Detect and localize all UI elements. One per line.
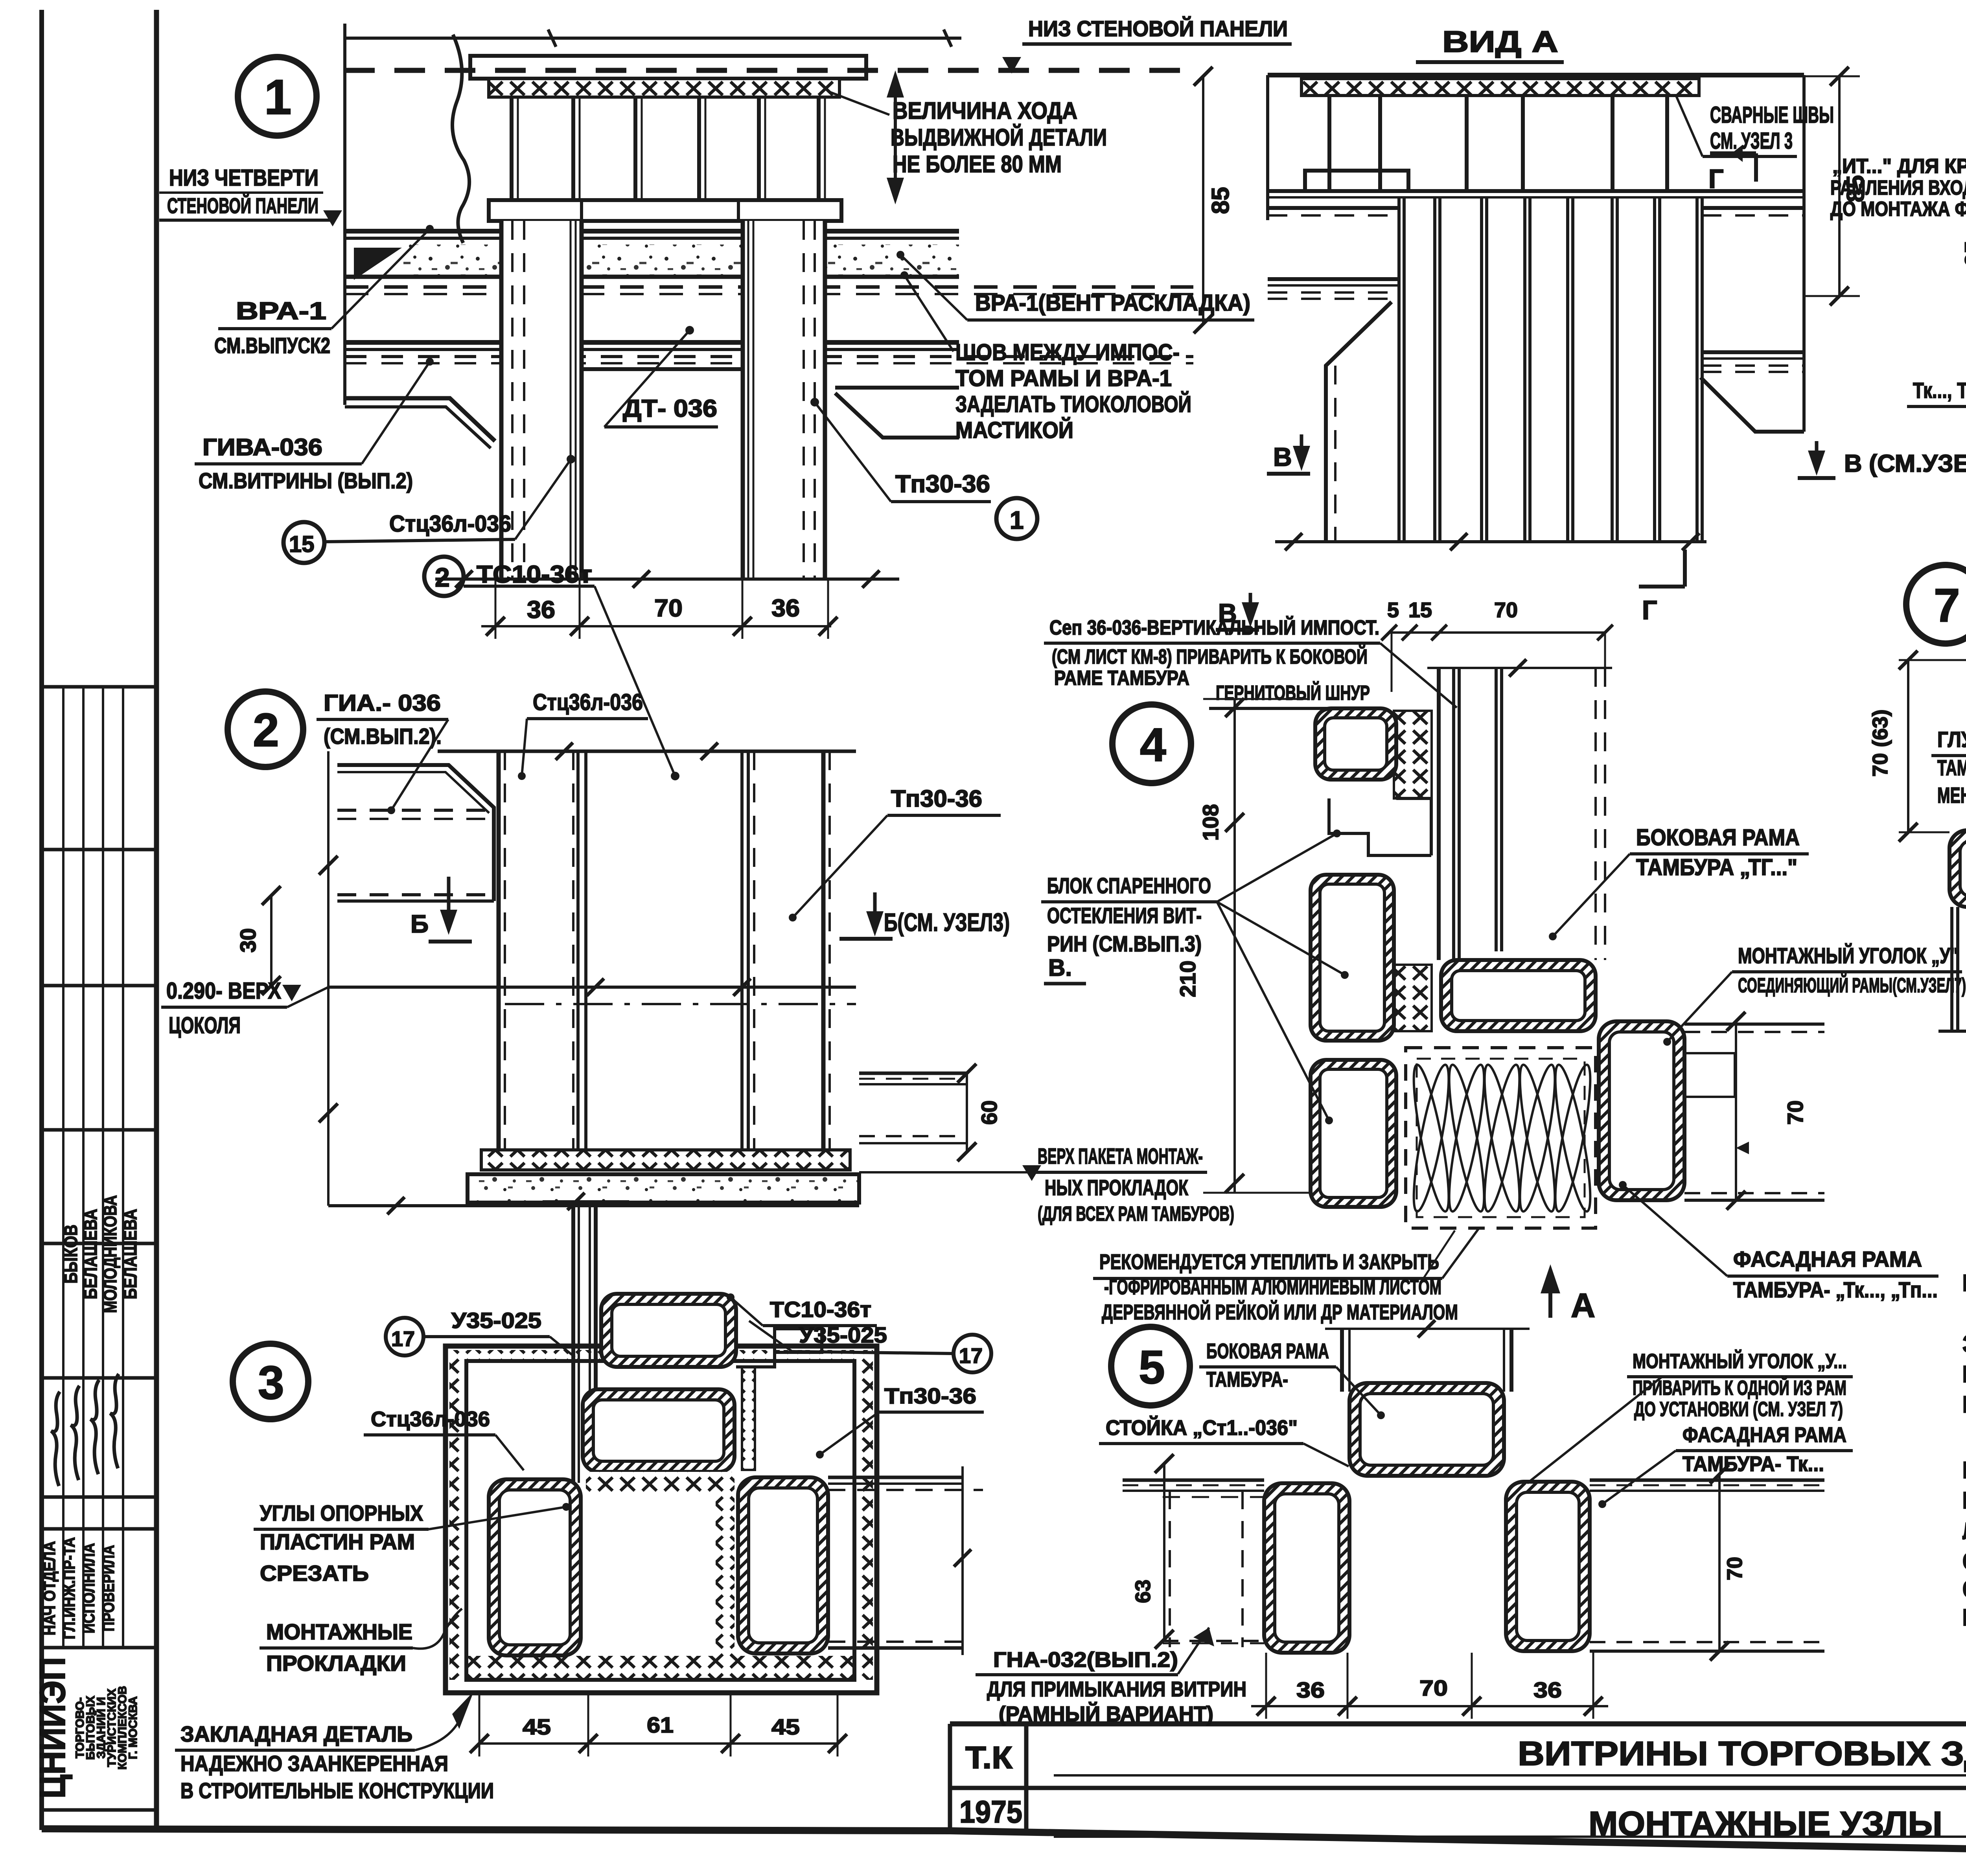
- vertical channel (боковая рама): [1437, 668, 1441, 960]
- base plate speckled: [468, 1174, 859, 1203]
- node circle 5: [1111, 1327, 1190, 1405]
- svg-text:В: В: [1273, 442, 1292, 471]
- Г section marker top: [1710, 151, 1756, 155]
- svg-text:Б: Б: [411, 910, 429, 938]
- svg-text:Стц36л-036: Стц36л-036: [533, 690, 643, 715]
- svg-text:(СМ.ВЫП.2).: (СМ.ВЫП.2).: [324, 724, 442, 749]
- right gasket strip: [742, 1367, 755, 1470]
- svg-text:НЕНИЕ СТОЕК НА УГЛАХ ПРОИЗВОДИ: НЕНИЕ СТОЕК НА УГЛАХ ПРОИЗВОДИТСЯ ПО ТИП…: [1962, 1361, 1966, 1387]
- svg-text:СОЕДИНЯЮЩИЙ РАМЫ(СМ.УЗЕЛ7): СОЕДИНЯЮЩИЙ РАМЫ(СМ.УЗЕЛ7): [1738, 974, 1966, 997]
- svg-text:ВИД А: ВИД А: [1442, 25, 1558, 59]
- top edge line: [1268, 73, 1804, 77]
- left column: [501, 221, 582, 579]
- svg-text:ТАМБУРА-: ТАМБУРА-: [1206, 1368, 1288, 1391]
- svg-text:70: 70: [1494, 598, 1518, 622]
- svg-text:36: 36: [1296, 1677, 1325, 1702]
- svg-text:ЗАПОЛНЕНИЕ ШВОВ МЕЖДУ СТОЙКАМИ: ЗАПОЛНЕНИЕ ШВОВ МЕЖДУ СТОЙКАМИ РАМ, НАРА…: [1962, 1331, 1966, 1357]
- svg-text:Г. МОСКВА: Г. МОСКВА: [127, 1696, 140, 1759]
- dashed hidden lines: [345, 285, 1193, 289]
- left beam section: [1268, 206, 1399, 210]
- svg-text:У35-025: У35-025: [799, 1322, 887, 1347]
- svg-text:Тк..., Тп...: Тк..., Тп...: [1913, 378, 1966, 403]
- right beam section: [1702, 206, 1804, 210]
- svg-text:В (СМ.УЗЕЛ4): В (СМ.УЗЕЛ4): [1844, 450, 1966, 477]
- svg-text:ГЕРМЕТИЗИРУЮТСЯ, ВЕРХ ПЕРЕКРЫВ: ГЕРМЕТИЗИРУЮТСЯ, ВЕРХ ПЕРЕКРЫВАЕТСЯ КОНС…: [1962, 1604, 1966, 1631]
- svg-text:15: 15: [1408, 598, 1432, 622]
- svg-text:БОКОВАЯ РАМА: БОКОВАЯ РАМА: [1636, 825, 1800, 850]
- svg-text:108: 108: [1198, 804, 1223, 841]
- bottom tick line: [328, 1204, 859, 1207]
- sheet frame: left margin strip outer line: [39, 10, 44, 1830]
- left strip: signatures (squiggles): [51, 1392, 60, 1486]
- small sill plate left: [1305, 171, 1408, 191]
- bubble 17 left + У35-025: [386, 1318, 423, 1356]
- svg-text:(ДЛЯ ВСЕХ РАМ ТАМБУРОВ): (ДЛЯ ВСЕХ РАМ ТАМБУРОВ): [1038, 1203, 1234, 1225]
- top dashed panel line: [344, 68, 1193, 73]
- dim 63: [1163, 1464, 1165, 1639]
- title block: middle line: [950, 1786, 1966, 1790]
- left margin strip column lines: [62, 687, 64, 1648]
- svg-text:НЯЕТСЯ ПРОЕКТОМ КОНКРЕТНОГО ОБ: НЯЕТСЯ ПРОЕКТОМ КОНКРЕТНОГО ОБЪЕКТА.: [1962, 1270, 1966, 1296]
- right beam stubs: [859, 1072, 967, 1075]
- svg-text:25: 25: [1960, 241, 1966, 267]
- left chamfer step: [345, 398, 495, 441]
- svg-text:ТАМБУРА- Тк...: ТАМБУРА- Тк...: [1683, 1452, 1824, 1476]
- dim 85 right: [1202, 76, 1204, 324]
- svg-text:НАЧ ОТДЕЛА: НАЧ ОТДЕЛА: [40, 1541, 59, 1635]
- svg-text:СВАРНЫЕ ШВЫ: СВАРНЫЕ ШВЫ: [1710, 102, 1834, 128]
- svg-text:МОНТАЖНЫЕ: МОНТАЖНЫЕ: [266, 1619, 412, 1644]
- svg-text:36: 36: [1533, 1677, 1562, 1702]
- node circle 2: [228, 692, 303, 767]
- wavy break line: [452, 35, 469, 243]
- svg-text:В СТРОИТЕЛЬНЫЕ КОНСТРУКЦИИ: В СТРОИТЕЛЬНЫЕ КОНСТРУКЦИИ: [180, 1778, 494, 1803]
- hatch under middle tube: [586, 1472, 734, 1492]
- svg-text:ПРОКЛАДКИ: ПРОКЛАДКИ: [266, 1651, 406, 1676]
- step profiles right of upper tube: [736, 1329, 822, 1367]
- svg-text:ГЛ.ИНЖ.ПР-ТА: ГЛ.ИНЖ.ПР-ТА: [60, 1537, 78, 1639]
- svg-text:Тп30-36: Тп30-36: [895, 471, 990, 498]
- left tube vertical: [489, 1479, 581, 1655]
- svg-text:ВИТРИНЫ ТОРГОВЫХ ЗДАНИЙ.: ВИТРИНЫ ТОРГОВЫХ ЗДАНИЙ.: [1518, 1734, 1966, 1773]
- svg-text:30: 30: [236, 928, 260, 953]
- svg-text:А: А: [1571, 1287, 1595, 1324]
- 30 dim: [270, 896, 272, 986]
- svg-text:РИН СЕРИИ 1.236-3 ВЫПУСКИ 1, 2: РИН СЕРИИ 1.236-3 ВЫПУСКИ 1, 2, 3.: [1962, 1391, 1966, 1418]
- right rails: [1684, 1023, 1824, 1026]
- svg-text:УГЛЫ ОПОРНЫХ: УГЛЫ ОПОРНЫХ: [260, 1501, 423, 1525]
- node circle 4: [1112, 704, 1191, 783]
- dimension line 36|70|36: [481, 625, 831, 627]
- top channel: [1340, 1329, 1344, 1392]
- svg-text:ДЛЯ ПРИМЫКАНИЯ ВИТРИН: ДЛЯ ПРИМЫКАНИЯ ВИТРИН: [987, 1677, 1246, 1701]
- svg-text:БЛОК СПАРЕННОГО: БЛОК СПАРЕННОГО: [1047, 873, 1211, 898]
- svg-text:Тп30-36: Тп30-36: [891, 785, 982, 812]
- svg-text:ВРА-1: ВРА-1: [236, 298, 326, 325]
- ref bubble 15 + label Стц36л-036: [283, 522, 324, 563]
- svg-text:ГИА.- 036: ГИА.- 036: [324, 690, 441, 716]
- svg-text:„ИТ..." ДЛЯ КРЕПЛЕНИЯ ОБ-: „ИТ..." ДЛЯ КРЕПЛЕНИЯ ОБ-: [1832, 155, 1966, 178]
- node circle 3: [233, 1344, 308, 1419]
- insulation loops: [1407, 1063, 1456, 1214]
- svg-text:ОЧЕРЕДЬ УСТАНАВЛИВАЮТСЯ СТОЙКИ: ОЧЕРЕДЬ УСТАНАВЛИВАЮТСЯ СТОЙКИ „Стц..." …: [1962, 1548, 1966, 1574]
- node circle 1: [238, 57, 317, 136]
- svg-text:Тп30-36: Тп30-36: [884, 1383, 976, 1408]
- svg-text:ПРИВАРИТЬ К ОДНОЙ ИЗ РАМ: ПРИВАРИТЬ К ОДНОЙ ИЗ РАМ: [1633, 1376, 1846, 1400]
- svg-text:СИРУЮЩИЙ ПОГРЕШНОСТЬ УСТАНОВКИ: СИРУЮЩИЙ ПОГРЕШНОСТЬ УСТАНОВКИ РАМ ВИТРИ…: [1962, 1576, 1966, 1602]
- lintel between columns: [582, 367, 743, 371]
- svg-text:ГЛУХАЯ РАМА: ГЛУХАЯ РАМА: [1937, 727, 1966, 752]
- svg-text:60: 60: [977, 1100, 1001, 1125]
- title block: top line: [950, 1722, 1966, 1727]
- svg-text:Т.К: Т.К: [965, 1740, 1012, 1775]
- svg-text:НЕ БОЛЕЕ 80 ММ: НЕ БОЛЕЕ 80 ММ: [893, 151, 1062, 177]
- right tube vertical: [738, 1477, 828, 1653]
- mullions: [1327, 96, 1331, 191]
- svg-text:ТАМБУРА „ТГ...": ТАМБУРА „ТГ...": [1636, 855, 1797, 880]
- left attached block with chamfer: [337, 765, 494, 901]
- svg-text:Стц36л-036: Стц36л-036: [389, 511, 511, 537]
- gasket x-hatch strips: [1394, 711, 1432, 798]
- svg-text:МОНТАЖНЫЙ УГОЛОК „У...: МОНТАЖНЫЙ УГОЛОК „У...: [1633, 1350, 1847, 1373]
- left margin strip row lines: [42, 685, 156, 689]
- stroke travel arrow: [894, 79, 897, 197]
- svg-text:45: 45: [771, 1714, 800, 1739]
- svg-text:НИЗ ЧЕТВЕРТИ: НИЗ ЧЕТВЕРТИ: [169, 165, 318, 191]
- sill bar: [489, 200, 841, 221]
- svg-text:2: 2: [253, 704, 279, 756]
- svg-text:СТЕНОВОЙ ПАНЕЛИ: СТЕНОВОЙ ПАНЕЛИ: [167, 193, 318, 218]
- svg-text:МЕНТОВ ВИТРИН: МЕНТОВ ВИТРИН: [1937, 783, 1966, 807]
- sealant wedge: [354, 248, 402, 280]
- embedded plate outer rect: [445, 1346, 877, 1693]
- Г section marker bottom: [1683, 550, 1687, 587]
- svg-text:ИСПОЛНИЛА: ИСПОЛНИЛА: [79, 1543, 98, 1633]
- leader from ТС10-36т to detail 2 column: [595, 586, 675, 776]
- svg-text:17: 17: [959, 1344, 983, 1368]
- svg-text:36: 36: [527, 596, 555, 623]
- svg-text:(РАМНЫЙ ВАРИАНТ): (РАМНЫЙ ВАРИАНТ): [999, 1702, 1213, 1726]
- svg-text:ГНА-032(ВЫП.2): ГНА-032(ВЫП.2): [993, 1648, 1178, 1672]
- left tube: [1264, 1483, 1349, 1653]
- top dim line of detail 1: [344, 37, 961, 40]
- svg-text:ФАСАДНАЯ РАМА: ФАСАДНАЯ РАМА: [1683, 1423, 1846, 1447]
- bottom tick: [1938, 1030, 1966, 1033]
- svg-text:ВРА-1(ВЕНТ РАСКЛАДКА): ВРА-1(ВЕНТ РАСКЛАДКА): [975, 290, 1250, 316]
- sheet frame: bottom border: [42, 1829, 1966, 1862]
- 0.290 level lines: [328, 986, 856, 989]
- svg-text:СМ. УЗЕЛ 3: СМ. УЗЕЛ 3: [1710, 128, 1793, 154]
- x-hatch gap bands of plate: [451, 1350, 873, 1361]
- title block: faint rules: [1054, 1774, 1966, 1777]
- svg-text:17: 17: [391, 1327, 415, 1351]
- title block: vertical dividers: [948, 1724, 952, 1831]
- svg-text:210: 210: [1175, 960, 1200, 997]
- right tube: [1506, 1482, 1590, 1651]
- centre horizontal tube: [1349, 1383, 1504, 1476]
- concrete speckle band: [403, 245, 959, 276]
- svg-text:36: 36: [771, 595, 800, 622]
- svg-text:БЫКОВ: БЫКОВ: [61, 1225, 81, 1284]
- Б (СМ.УЗЕЛ 3) marker: [873, 892, 877, 929]
- svg-text:1: 1: [1010, 506, 1024, 534]
- horizontal tube lower left: [1949, 830, 1966, 907]
- svg-text:ДО УСТАНОВКИ (СМ. УЗЕЛ 7): ДО УСТАНОВКИ (СМ. УЗЕЛ 7): [1634, 1398, 1843, 1421]
- svg-text:45: 45: [523, 1714, 551, 1739]
- svg-text:ПРОВЕРИЛА: ПРОВЕРИЛА: [99, 1545, 118, 1631]
- svg-text:НИЗ СТЕНОВОЙ ПАНЕЛИ: НИЗ СТЕНОВОЙ ПАНЕЛИ: [1028, 16, 1288, 41]
- beam lines lower: [345, 340, 959, 345]
- svg-text:ТАМБУРА ИЗ ЭЛЕ-: ТАМБУРА ИЗ ЭЛЕ-: [1937, 755, 1966, 780]
- svg-text:МОНТАЖНЫЙ УГОЛОК „У": МОНТАЖНЫЙ УГОЛОК „У": [1738, 943, 1958, 968]
- svg-text:СРЕЗАТЬ: СРЕЗАТЬ: [260, 1561, 369, 1585]
- svg-text:ШОВ МЕЖДУ ИМПОС-: ШОВ МЕЖДУ ИМПОС-: [955, 340, 1180, 365]
- horizontal facade tube: [1441, 960, 1596, 1031]
- svg-text:НАДЕЖНО ЗААНКЕРЕННАЯ: НАДЕЖНО ЗААНКЕРЕННАЯ: [180, 1751, 448, 1776]
- dim 70 (63) left: [1907, 660, 1909, 832]
- svg-text:ЦНИИЭП: ЦНИИЭП: [33, 1657, 73, 1799]
- dim 108 / 210 left: [1233, 699, 1236, 1193]
- svg-text:ЗАДЕЛАТЬ ТИОКОЛОВОЙ: ЗАДЕЛАТЬ ТИОКОЛОВОЙ: [955, 392, 1191, 417]
- svg-text:70: 70: [654, 595, 683, 622]
- svg-text:ФАСАДНАЯ РАМА: ФАСАДНАЯ РАМА: [1733, 1247, 1922, 1271]
- svg-text:МОНТАЖНЫЕ УЗЛЫ: МОНТАЖНЫЕ УЗЛЫ: [1589, 1805, 1942, 1843]
- posts below: [1950, 907, 1953, 1031]
- bottom tick line: [1275, 540, 1706, 543]
- svg-text:ТОМ РАМЫ И ВРА-1: ТОМ РАМЫ И ВРА-1: [955, 366, 1172, 391]
- svg-text:3: 3: [258, 1356, 284, 1409]
- svg-text:ТС10-36т: ТС10-36т: [770, 1297, 871, 1322]
- svg-text:ВЕЛИЧИНА ХОДА: ВЕЛИЧИНА ХОДА: [893, 97, 1077, 124]
- main horizontal line: [1268, 189, 1804, 193]
- svg-text:ПЛАСТИН РАМ: ПЛАСТИН РАМ: [260, 1529, 415, 1554]
- svg-text:ТАМБУРА- „Тк..., „Тп...: ТАМБУРА- „Тк..., „Тп...: [1733, 1277, 1938, 1302]
- long vertical dim line at left: [327, 751, 330, 1206]
- svg-text:5: 5: [1963, 293, 1966, 305]
- svg-text:ОСТЕКЛЕНИЯ ВИТ-: ОСТЕКЛЕНИЯ ВИТ-: [1047, 903, 1202, 928]
- svg-text:СТОЙКА „Ст1..-036": СТОЙКА „Ст1..-036": [1106, 1416, 1298, 1440]
- svg-text:-ГОФРИРОВАННЫМ АЛЮМИНИЕВЫМ ЛИС: -ГОФРИРОВАННЫМ АЛЮМИНИЕВЫМ ЛИСТОМ: [1104, 1275, 1441, 1299]
- svg-text:ТС10-36т: ТС10-36т: [477, 561, 592, 588]
- svg-text:ДТ- 036: ДТ- 036: [623, 395, 717, 422]
- svg-text:ВЫДВИЖНОЙ ДЕТАЛИ: ВЫДВИЖНОЙ ДЕТАЛИ: [891, 124, 1107, 151]
- svg-text:5: 5: [1139, 1341, 1165, 1394]
- top tick line of detail 2: [438, 750, 856, 753]
- base x-hatch packing: [481, 1150, 850, 1170]
- dim 85 right of Вид А: [1838, 76, 1841, 296]
- top sliding bar: [470, 56, 866, 79]
- side rails left: [1123, 1479, 1264, 1482]
- svg-text:7: 7: [1934, 579, 1960, 632]
- bottom tick line: [435, 578, 899, 581]
- x-hatch band: [1301, 79, 1699, 96]
- ref bubble 2 + label ТС10-36т: [424, 557, 464, 596]
- svg-text:РАМ -„Тп..." И „Тк..." (СМ. УЗ: РАМ -„Тп..." И „Тк..." (СМ. УЗЛЫ 3,4,5).…: [1962, 1457, 1966, 1483]
- mullion bars of sliding element: [510, 97, 514, 200]
- svg-text:ДЕРЕВЯННОЙ РЕЙКОЙ ИЛИ ДР МАТЕР: ДЕРЕВЯННОЙ РЕЙКОЙ ИЛИ ДР МАТЕРИАЛОМ: [1102, 1300, 1458, 1324]
- svg-text:2: 2: [435, 563, 450, 592]
- central channel from above: [571, 1201, 575, 1483]
- svg-text:ДО МОНТАЖА ФАСАДНЫХ РАМ): ДО МОНТАЖА ФАСАДНЫХ РАМ): [1830, 198, 1966, 221]
- sheet frame: left margin strip inner line / drawing border: [154, 10, 159, 1830]
- right corner tube: [1599, 1021, 1684, 1200]
- svg-text:В.: В.: [1048, 955, 1072, 981]
- dim line 45|61|45: [479, 1742, 838, 1745]
- svg-text:5: 5: [1387, 598, 1399, 622]
- svg-text:МАСТИКОЙ: МАСТИКОЙ: [955, 418, 1073, 443]
- svg-text:70 (63): 70 (63): [1868, 709, 1892, 776]
- side rails right: [1590, 1479, 1824, 1482]
- svg-text:85: 85: [1207, 187, 1234, 214]
- right chamfer step: [835, 386, 959, 390]
- А direction marker: [1548, 1273, 1552, 1318]
- svg-text:70: 70: [1723, 1557, 1747, 1580]
- svg-text:РАМЕ ТАМБУРА: РАМЕ ТАМБУРА: [1054, 667, 1189, 690]
- B (СМ.УЗЕЛ4) marker right: [1815, 441, 1819, 469]
- svg-text:РЕКОМЕНДУЕТСЯ УТЕПЛИТЬ И ЗАКРЫ: РЕКОМЕНДУЕТСЯ УТЕПЛИТЬ И ЗАКРЫТЬ: [1099, 1250, 1439, 1274]
- right column: [743, 221, 825, 579]
- svg-text:Г: Г: [1642, 595, 1657, 625]
- 60 dim: [966, 1073, 968, 1152]
- svg-text:1975: 1975: [959, 1794, 1022, 1829]
- dim 70 right: [1718, 1474, 1721, 1651]
- svg-text:ГИВА-036: ГИВА-036: [202, 434, 322, 460]
- upper tube: [601, 1294, 736, 1367]
- svg-text:(СМ ЛИСТ КМ-8) ПРИВАРИТЬ К БОК: (СМ ЛИСТ КМ-8) ПРИВАРИТЬ К БОКОВОЙ: [1052, 645, 1368, 668]
- svg-text:ЦОКОЛЯ: ЦОКОЛЯ: [169, 1013, 241, 1038]
- svg-text:МОЛОДНИКОВА: МОЛОДНИКОВА: [100, 1195, 120, 1313]
- svg-text:СМ.ВЫПУСК2: СМ.ВЫПУСК2: [214, 333, 330, 358]
- beam lines upper: [345, 229, 959, 234]
- bottom dim 36|70|36: [1251, 1705, 1608, 1707]
- dashed adjacent block left: [1169, 1492, 1171, 1647]
- svg-text:РИН (СМ.ВЫП.3): РИН (СМ.ВЫП.3): [1047, 931, 1202, 956]
- svg-text:ЗАКЛАДНАЯ ДЕТАЛЬ: ЗАКЛАДНАЯ ДЕТАЛЬ: [180, 1722, 412, 1746]
- small step profiles between: [1329, 798, 1431, 855]
- svg-text:1: 1: [264, 70, 292, 125]
- svg-text:63: 63: [1131, 1580, 1155, 1603]
- svg-text:15: 15: [289, 532, 315, 557]
- svg-text:НЫХ ПРОКЛАДОК: НЫХ ПРОКЛАДОК: [1045, 1175, 1189, 1200]
- svg-text:ВЕРХ ПАКЕТА МОНТАЖ-: ВЕРХ ПАКЕТА МОНТАЖ-: [1038, 1144, 1203, 1168]
- svg-text:МЫ ТАМБУРА ОБРАЗУЮЩИЕ УГЛОВЫЕ: МЫ ТАМБУРА ОБРАЗУЮЩИЕ УГЛОВЫЕ СОЕДИНЕНИЯ…: [1962, 1487, 1966, 1514]
- svg-text:ЛИВАЮТСЯ РАМЫ ШАХТ ЗАБОРА ВОЗД: ЛИВАЮТСЯ РАМЫ ШАХТ ЗАБОРА ВОЗДУХА И ТЕПЛ…: [1962, 1518, 1966, 1544]
- x-hatch strip under bar: [489, 79, 839, 97]
- svg-text:У35-025: У35-025: [451, 1308, 541, 1333]
- svg-text:БЕЛАШЕВА: БЕЛАШЕВА: [80, 1209, 101, 1299]
- rails to right: [828, 1476, 963, 1479]
- svg-text:Г: Г: [1708, 164, 1724, 194]
- svg-text:Стц36л-036: Стц36л-036: [371, 1407, 490, 1431]
- svg-text:70: 70: [1419, 1676, 1448, 1700]
- svg-text:БЕЛАШЕВА: БЕЛАШЕВА: [120, 1209, 140, 1299]
- svg-text:РАМЛЕНИЯ ВХОДА (УСТАНОВИТЬ: РАМЛЕНИЯ ВХОДА (УСТАНОВИТЬ: [1830, 177, 1966, 199]
- svg-text:4: 4: [1140, 719, 1166, 771]
- svg-text:Сеп 36-036-ВЕРТИКАЛЬНЫЙ ИМПОСТ: Сеп 36-036-ВЕРТИКАЛЬНЫЙ ИМПОСТ.: [1049, 616, 1379, 639]
- showcase glazing tubes stack: [1315, 708, 1396, 780]
- middle tube: [583, 1389, 734, 1472]
- inner rect: [466, 1361, 854, 1680]
- mid vertical x-strip: [716, 1492, 734, 1656]
- columns of detail 2: [497, 751, 501, 1150]
- svg-text:СМ.ВИТРИНЫ (ВЫП.2): СМ.ВИТРИНЫ (ВЫП.2): [199, 468, 413, 493]
- insulation dashed box: [1406, 1048, 1596, 1228]
- vertical stripes: [1397, 197, 1401, 542]
- dim 70 right: [1735, 1021, 1737, 1200]
- svg-text:61: 61: [647, 1712, 674, 1737]
- svg-text:Б(СМ. УЗЕЛ3): Б(СМ. УЗЕЛ3): [884, 908, 1010, 936]
- svg-text:БОКОВАЯ РАМА: БОКОВАЯ РАМА: [1206, 1339, 1329, 1363]
- left cut line: [343, 24, 346, 405]
- svg-text:0.290- ВЕРХ: 0.290- ВЕРХ: [166, 978, 281, 1004]
- svg-text:70: 70: [1783, 1100, 1808, 1125]
- node circle 7: [1906, 565, 1966, 644]
